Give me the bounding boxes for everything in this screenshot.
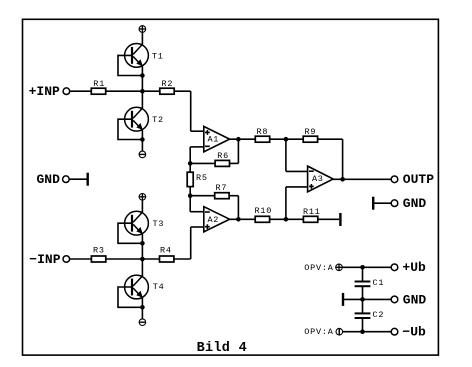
- svg-text:R1: R1: [93, 79, 105, 89]
- svg-text:+Ub: +Ub: [402, 260, 426, 275]
- svg-text:A2: A2: [208, 215, 220, 225]
- svg-text:C2: C2: [373, 310, 385, 320]
- svg-text:R6: R6: [217, 151, 229, 161]
- svg-text:R11: R11: [303, 207, 321, 217]
- svg-text:OUTP: OUTP: [403, 172, 434, 187]
- svg-text:T4: T4: [153, 282, 165, 292]
- svg-text:R5: R5: [196, 173, 208, 183]
- svg-text:R2: R2: [162, 79, 174, 89]
- svg-text:+INP: +INP: [29, 84, 60, 99]
- svg-text:R10: R10: [255, 206, 273, 216]
- svg-text:T3: T3: [153, 219, 165, 229]
- svg-text:R7: R7: [216, 183, 228, 193]
- svg-text:Bild 4: Bild 4: [197, 341, 247, 356]
- svg-text:T2: T2: [152, 115, 164, 125]
- svg-text:T1: T1: [152, 51, 164, 61]
- svg-text:A3: A3: [312, 174, 324, 184]
- svg-text:A1: A1: [208, 135, 220, 145]
- svg-text:C1: C1: [373, 278, 385, 288]
- svg-text:GND: GND: [403, 196, 427, 211]
- svg-text:−INP: −INP: [29, 252, 60, 267]
- svg-text:OPV:A: OPV:A: [304, 327, 334, 337]
- svg-text:R4: R4: [160, 246, 172, 256]
- svg-text:R3: R3: [93, 246, 105, 256]
- svg-text:−Ub: −Ub: [402, 325, 426, 340]
- svg-text:R8: R8: [257, 127, 269, 137]
- svg-text:GND: GND: [37, 172, 61, 187]
- svg-text:OPV:A: OPV:A: [304, 263, 334, 273]
- svg-text:GND: GND: [403, 292, 427, 307]
- svg-text:R9: R9: [305, 127, 317, 137]
